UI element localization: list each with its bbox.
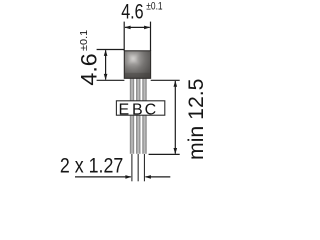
dimension: lead pitch 2 x 1.27 (bottom) bbox=[132, 154, 145, 181]
package body TO-92 bbox=[124, 51, 150, 79]
svg-text:2 x 1.27: 2 x 1.27 bbox=[60, 155, 123, 178]
svg-text:E: E bbox=[118, 101, 129, 118]
svg-text:min 12.5: min 12.5 bbox=[185, 79, 208, 161]
svg-text:4.6: 4.6 bbox=[76, 53, 101, 85]
dimension: lead length min 12.5 (right) bbox=[149, 80, 180, 154]
lead B bbox=[136, 78, 140, 154]
svg-text:±0.1: ±0.1 bbox=[146, 1, 162, 13]
svg-text:B: B bbox=[132, 101, 143, 118]
dimension: body height 4.6 +/-0.1 (left) bbox=[97, 50, 125, 81]
svg-text:4.6: 4.6 bbox=[121, 0, 143, 24]
svg-text:C: C bbox=[145, 101, 157, 118]
dimension: body width 4.6 +/-0.1 (top) bbox=[124, 22, 150, 51]
svg-text:±0.1: ±0.1 bbox=[79, 30, 90, 51]
pin label box E B C bbox=[116, 101, 164, 119]
lead E bbox=[130, 78, 134, 154]
lead C bbox=[142, 78, 146, 154]
